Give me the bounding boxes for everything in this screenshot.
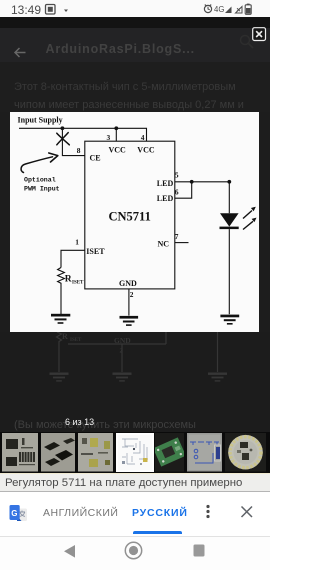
bottom nav (0, 536, 270, 537)
translate bar (0, 492, 270, 536)
junction dot pin5/pin6 (190, 179, 194, 183)
ground (RISET) (51, 313, 70, 316)
svg-text:ISET: ISET (86, 247, 105, 256)
svg-text:G: G (11, 509, 17, 518)
wire NC stub (175, 241, 189, 243)
dim ground (RISET) (50, 372, 69, 374)
X mark optional PWM connection (57, 132, 70, 144)
svg-text:CN5711: CN5711 (109, 209, 151, 223)
bright close button of viewer (252, 27, 267, 42)
wire CE drop from PWM node (62, 128, 84, 155)
wire pin6 joins pin5 (175, 181, 192, 197)
wire resistor to ground (60, 285, 62, 314)
LED cathode bar (220, 226, 239, 229)
thumb 1: datasheet packages (2, 433, 38, 472)
header dark (0, 17, 270, 28)
LED D1 triangle (220, 213, 239, 226)
ground (LED) (220, 314, 239, 317)
wire LED cathode to ground (228, 229, 230, 314)
dim wire GND pin (121, 344, 123, 372)
dim background page: resistor RISET remnant (57, 332, 62, 372)
wire ISET to resistor (61, 250, 85, 267)
dim IC bottom edge (68, 332, 166, 344)
SCHEMATIC PANEL (10, 112, 259, 332)
thumb 3: light photo with yellow parts (78, 433, 113, 472)
svg-text:4: 4 (141, 133, 145, 142)
svg-text:2: 2 (130, 290, 134, 299)
wire to LED (228, 181, 230, 212)
svg-text:ISET: ISET (72, 280, 84, 285)
status bar (0, 0, 270, 17)
thumb 7: LED ring on dark (225, 433, 266, 472)
svg-text:Optional: Optional (24, 176, 56, 183)
svg-text:GND: GND (114, 336, 131, 345)
svg-text:ISET: ISET (70, 338, 82, 343)
svg-text:LED: LED (157, 194, 174, 203)
svg-text:Input Supply: Input Supply (18, 115, 63, 124)
thumb 4: selected white schematic (116, 433, 154, 472)
svg-text:LED: LED (157, 179, 174, 188)
svg-text:7: 7 (175, 232, 179, 241)
svg-text:8: 8 (77, 146, 81, 155)
wire pin3 stub (115, 128, 117, 141)
svg-text:1: 1 (75, 237, 79, 246)
dim band below image (0, 332, 270, 433)
svg-text:R: R (65, 274, 72, 284)
dim ground (LED) (208, 372, 227, 374)
svg-text:5: 5 (175, 170, 179, 179)
svg-text:PWM Input: PWM Input (24, 185, 60, 192)
svg-text:VCC: VCC (137, 145, 155, 154)
wire input supply rail (19, 128, 147, 141)
thumb 6: blue-ink schematic on light (187, 433, 222, 472)
junction dot LED branch (227, 179, 231, 183)
dim page text above image (0, 62, 270, 112)
ground (GND pin) (120, 315, 139, 318)
dim magnifier (237, 33, 257, 53)
svg-text:GND: GND (119, 279, 137, 288)
dim ground (GND) (113, 372, 132, 374)
junction dot pin3 node (114, 126, 118, 130)
thumb 5: green PCB on dark (155, 433, 184, 472)
svg-text:6: 6 (175, 187, 179, 196)
wire pin5 to LED anode (175, 180, 230, 182)
svg-text:R: R (62, 332, 68, 341)
dim wire LED (217, 332, 219, 372)
svg-text:VCC: VCC (109, 145, 127, 154)
junction dot PWM node (61, 126, 65, 130)
thumbnails strip (0, 432, 270, 473)
op-amp U1 CN5711 IC body (85, 141, 175, 289)
LED emission arrows (243, 210, 252, 218)
svg-text:4G: 4G (214, 5, 224, 14)
wire GND pin to ground (128, 288, 130, 315)
resistor RISET zigzag (58, 267, 65, 285)
thumb 2: SOT packages (41, 433, 76, 472)
cream line + caption (0, 473, 270, 475)
svg-text:NC: NC (158, 239, 170, 248)
svg-text:3: 3 (107, 133, 111, 142)
annotation arrow to PWM input (21, 156, 52, 172)
svg-text:CE: CE (90, 153, 101, 162)
